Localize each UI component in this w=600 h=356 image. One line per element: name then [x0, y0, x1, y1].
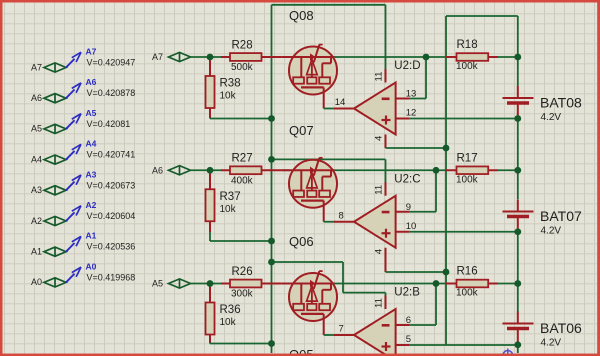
svg-text:A3: A3: [86, 169, 97, 179]
wire: rail 2 horizontal y=159.4: [272, 158, 386, 160]
op-amp U2:B: [334, 287, 420, 356]
wire: row segment MOSFET to x=446: [335, 169, 447, 171]
wire: U2:C pin4 to rail: [386, 271, 447, 273]
svg-text:R17: R17: [457, 152, 478, 164]
wire: row segment terminal to R2x: [191, 169, 223, 171]
svg-text:400k: 400k: [231, 175, 254, 186]
svg-text:R27: R27: [232, 153, 253, 165]
wire: U2:D pin4 to rail: [386, 147, 447, 149]
wire: minus-input horizontal: [410, 211, 436, 213]
svg-text:500k: 500k: [231, 62, 254, 73]
svg-text:11: 11: [374, 185, 385, 195]
voltage probe A1: [31, 231, 135, 257]
svg-text:V=0.420673: V=0.420673: [87, 180, 136, 190]
resistor R27: [221, 153, 281, 187]
voltage probe A4: [31, 139, 135, 165]
wire: row segment R2x to MOSFET: [281, 283, 290, 285]
wire: U2:B pin11 riser: [385, 293, 387, 297]
junction: [514, 167, 521, 174]
wire: vertical rail x=446: [445, 16, 447, 345]
wire: battery chain bottom segment: [517, 345, 519, 353]
voltage probe A7: [31, 47, 135, 73]
svg-text:V=0.420741: V=0.420741: [87, 150, 136, 160]
svg-text:4.2V: 4.2V: [541, 226, 562, 237]
svg-text:A1: A1: [31, 247, 42, 257]
battery BAT06: [503, 312, 582, 349]
svg-text:11: 11: [374, 298, 385, 308]
wire: minus-input riser: [435, 170, 437, 212]
transistor Q08: [281, 8, 337, 109]
svg-text:12: 12: [406, 108, 417, 119]
svg-text:Q08: Q08: [289, 8, 314, 23]
svg-text:A7: A7: [86, 47, 97, 57]
svg-text:A6: A6: [86, 77, 97, 87]
wire: rail 3 horizontal y=292.6: [343, 292, 386, 294]
svg-text:4: 4: [374, 249, 385, 254]
wire: drain to op-amp output: [324, 108, 335, 110]
wire: minus-input horizontal: [410, 98, 426, 100]
junction: [433, 280, 440, 287]
svg-text:U2:B: U2:B: [394, 287, 420, 299]
svg-text:A7: A7: [152, 52, 163, 62]
resistor R16: [446, 266, 498, 299]
wire: battery chain segment BAT08-BAT07: [517, 119, 519, 200]
wire: minus-input horizontal: [410, 324, 436, 326]
svg-text:A5: A5: [152, 279, 163, 289]
junction: [514, 280, 521, 287]
terminal A7: [152, 52, 191, 62]
svg-text:U2:D: U2:D: [394, 60, 420, 72]
wire: R37 bottom to rail: [210, 240, 272, 242]
wire: row segment R1x to battery node: [498, 283, 518, 285]
svg-text:100k: 100k: [456, 174, 479, 185]
junction: [268, 340, 275, 347]
svg-text:11: 11: [374, 72, 385, 82]
battery BAT08: [503, 86, 582, 123]
junction: [443, 269, 450, 276]
svg-text:10k: 10k: [220, 91, 237, 102]
svg-text:10k: 10k: [220, 204, 237, 215]
transistor Q06: [281, 234, 337, 335]
svg-text:10k: 10k: [220, 317, 237, 328]
svg-text:10: 10: [406, 221, 417, 232]
wire: drain to op-amp output: [324, 221, 335, 223]
svg-text:A2: A2: [31, 216, 42, 226]
svg-text:BAT08: BAT08: [540, 95, 582, 111]
svg-text:R38: R38: [220, 78, 241, 90]
battery BAT07: [503, 200, 582, 237]
junction: [514, 341, 521, 348]
wire: row segment MOSFET to x=446: [335, 56, 447, 58]
voltage probe A5: [31, 108, 130, 134]
wire: rail 3 horizontal y=262: [272, 261, 344, 263]
svg-text:R36: R36: [220, 304, 241, 316]
wire: U2:C pin11 riser: [385, 159, 387, 183]
svg-text:V=0.420536: V=0.420536: [87, 242, 136, 252]
terminal A5: [152, 279, 191, 289]
wire: row segment R1x to battery node: [498, 169, 518, 171]
svg-text:100k: 100k: [456, 61, 479, 72]
voltage probe A0: [31, 261, 135, 287]
junction: [443, 145, 450, 152]
voltage probe A6: [31, 77, 135, 103]
junction: [207, 167, 214, 174]
wire: top bridge y=16: [446, 15, 518, 17]
svg-text:R16: R16: [457, 266, 478, 278]
svg-text:A2: A2: [86, 200, 97, 210]
wire: row segment terminal to R2x: [191, 56, 223, 58]
resistor R38: [206, 60, 241, 119]
junction: [514, 54, 521, 61]
svg-text:A4: A4: [31, 154, 42, 164]
svg-text:R37: R37: [220, 191, 241, 203]
svg-text:A7: A7: [31, 62, 42, 72]
svg-text:V=0.419968: V=0.419968: [87, 272, 136, 282]
wire: R36 bottom to rail: [210, 343, 272, 345]
wire: drain to op-amp output: [324, 334, 335, 336]
svg-text:R18: R18: [457, 39, 478, 51]
junction: [268, 156, 275, 163]
svg-text:A6: A6: [152, 165, 163, 175]
junction: [207, 54, 214, 61]
svg-text:V=0.42081: V=0.42081: [87, 119, 131, 129]
resistor R37: [206, 173, 241, 232]
svg-text:A4: A4: [86, 139, 97, 149]
voltage probe A3: [31, 169, 135, 195]
junction: [423, 54, 430, 61]
origin marker: [501, 349, 515, 356]
svg-text:A0: A0: [31, 277, 42, 287]
wire: R37 bottom jog: [209, 232, 211, 241]
op-amp U2:D: [334, 60, 421, 148]
svg-text:4.2V: 4.2V: [541, 112, 562, 123]
wire: rail 1 top horizontal y=4.8: [272, 4, 386, 6]
wire: row segment R1x to battery node: [498, 56, 518, 58]
svg-text:300k: 300k: [231, 289, 254, 300]
wire: plus-input row: [410, 231, 518, 233]
wire: minus-input riser: [425, 57, 427, 99]
resistor R17: [446, 152, 498, 185]
svg-text:4.2V: 4.2V: [541, 338, 562, 349]
svg-text:14: 14: [335, 97, 346, 108]
svg-text:4: 4: [374, 136, 385, 141]
wire: battery chain segment BAT07-BAT06: [517, 232, 519, 312]
svg-text:A6: A6: [31, 93, 42, 103]
junction: [268, 259, 275, 266]
wire: U2:D pin11 riser x=385.5: [385, 5, 387, 70]
svg-text:A3: A3: [31, 185, 42, 195]
junction: [514, 115, 521, 122]
junction: [268, 238, 275, 245]
transistor Q07: [281, 123, 337, 222]
wire: battery chain top segment x=517.8: [517, 16, 519, 86]
svg-text:A5: A5: [86, 108, 97, 118]
wire: row segment terminal to R2x: [191, 283, 223, 285]
svg-text:A0: A0: [86, 261, 97, 271]
wire: minus-input riser: [435, 284, 437, 326]
svg-text:A1: A1: [86, 231, 97, 241]
junction: [207, 280, 214, 287]
svg-text:R28: R28: [232, 39, 253, 51]
resistor R28: [221, 39, 281, 73]
wire: plus-input row: [410, 118, 518, 120]
resistor R36: [206, 287, 241, 344]
svg-text:BAT06: BAT06: [540, 320, 582, 336]
terminal A6: [152, 165, 191, 175]
svg-text:Q06: Q06: [289, 234, 314, 249]
svg-text:V=0.420604: V=0.420604: [87, 211, 136, 221]
svg-text:V=0.420947: V=0.420947: [87, 58, 136, 68]
resistor R26: [221, 266, 281, 300]
resistor R18: [446, 39, 498, 72]
junction: [433, 167, 440, 174]
svg-text:Q07: Q07: [289, 123, 314, 138]
svg-text:7: 7: [339, 324, 344, 335]
svg-text:A5: A5: [31, 124, 42, 134]
svg-text:5: 5: [406, 334, 411, 345]
svg-text:BAT07: BAT07: [540, 208, 582, 224]
svg-text:U2:C: U2:C: [394, 173, 420, 185]
svg-text:100k: 100k: [456, 288, 479, 299]
wire: rail 3 vertical x=343: [342, 262, 344, 293]
svg-text:R26: R26: [232, 266, 253, 278]
junction: [514, 228, 521, 235]
op-amp U2:C: [334, 173, 421, 272]
junction: [268, 115, 275, 122]
wire: plus-input row: [410, 344, 518, 346]
wire: main vertical rail x=271.5: [271, 5, 273, 353]
wire: row segment R2x to MOSFET: [281, 56, 290, 58]
wire: row segment MOSFET to x=446: [335, 283, 447, 285]
voltage probe A2: [31, 200, 135, 226]
wire: row segment R2x to MOSFET: [281, 169, 290, 171]
wire: R38 bottom to rail: [210, 118, 272, 120]
svg-text:8: 8: [339, 210, 344, 221]
svg-text:V=0.420878: V=0.420878: [87, 88, 136, 98]
